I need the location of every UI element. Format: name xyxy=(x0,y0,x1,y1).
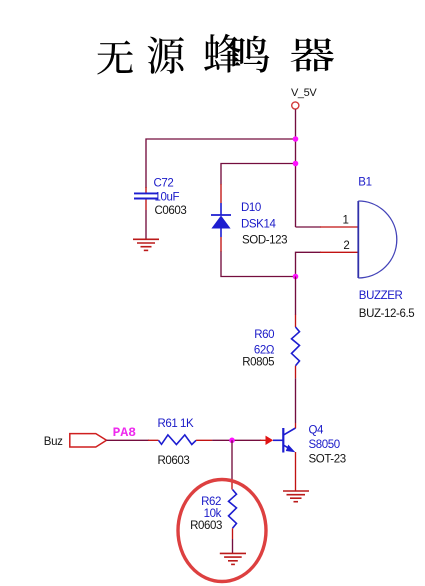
diode D10 cathode lead xyxy=(220,203,222,215)
capacitor C72 pin bottom xyxy=(145,200,147,211)
transistor Q4 emitter pin xyxy=(295,452,297,470)
buzzer B1 body flat side xyxy=(357,201,359,278)
wire R61 to junction xyxy=(212,439,232,441)
wire buzzer pin1 horizontal xyxy=(296,226,322,228)
node junction base/R62 xyxy=(229,438,235,444)
capacitor C72 pin top xyxy=(145,187,147,193)
resistor R60 pin bottom xyxy=(295,366,297,378)
wire junction to Q4 base xyxy=(232,439,261,441)
wire diode bottom branch xyxy=(221,252,296,277)
diode D10 triangle xyxy=(211,216,230,229)
resistor R60 zigzag xyxy=(292,327,300,366)
svg-text:C72: C72 xyxy=(154,178,174,190)
transistor Q4 emitter arrow head xyxy=(286,445,296,453)
svg-text:R0805: R0805 xyxy=(242,356,274,368)
power port V_5V circle xyxy=(292,102,299,109)
resistor R61 zigzag xyxy=(159,435,197,445)
svg-text:B1: B1 xyxy=(358,176,371,188)
resistor R62 zigzag xyxy=(229,490,237,529)
title char xyxy=(97,41,133,75)
svg-text:R0603: R0603 xyxy=(158,455,190,467)
svg-text:1: 1 xyxy=(343,214,349,226)
resistor R61 pin left xyxy=(148,439,159,441)
ground below C72 xyxy=(133,239,159,250)
wire junction to R60 xyxy=(295,277,297,316)
wire junction down to R62 xyxy=(231,440,233,480)
buzzer B1 pin 2 xyxy=(320,251,358,253)
wire buzzer pin2 horizontal and down xyxy=(296,252,322,277)
transistor Q4 collector pin xyxy=(295,423,297,428)
capacitor C72 plates xyxy=(134,192,158,194)
svg-text:R61: R61 xyxy=(158,418,178,430)
transistor Q4 collector diagonal xyxy=(284,428,296,435)
svg-text:S8050: S8050 xyxy=(309,439,340,451)
wire port to R61 xyxy=(107,439,150,441)
svg-text:Buz: Buz xyxy=(44,436,63,448)
title char xyxy=(291,38,334,72)
resistor R60 pin top xyxy=(295,315,297,327)
port Buz symbol xyxy=(70,434,107,447)
svg-text:10k: 10k xyxy=(204,508,222,520)
svg-text:PA8: PA8 xyxy=(113,425,137,440)
svg-text:SOT-23: SOT-23 xyxy=(309,454,346,466)
svg-text:62Ω: 62Ω xyxy=(254,345,275,357)
diode D10 pin top xyxy=(220,184,222,203)
ground below Q4 xyxy=(283,491,309,502)
wire C72 to ground xyxy=(145,210,147,239)
svg-text:BUZ-12-6.5: BUZ-12-6.5 xyxy=(359,308,414,320)
diode D10 anode lead xyxy=(220,229,222,238)
buzzer B1 body arc xyxy=(358,201,397,278)
title char xyxy=(148,37,184,74)
title char xyxy=(232,36,269,73)
svg-text:R60: R60 xyxy=(254,329,274,341)
svg-text:SOD-123: SOD-123 xyxy=(242,234,287,246)
svg-text:R0603: R0603 xyxy=(190,520,222,532)
node junction at C72 branch xyxy=(293,136,299,142)
wire emitter to ground xyxy=(295,470,297,491)
transistor Q4 base bar xyxy=(282,428,284,453)
diode D10 pin bottom xyxy=(220,237,222,252)
red arrow head xyxy=(266,436,274,445)
annotation red ellipse xyxy=(178,480,266,582)
svg-text:DSK14: DSK14 xyxy=(241,218,276,230)
resistor R61 pin right xyxy=(196,439,212,441)
svg-text:D10: D10 xyxy=(241,202,261,214)
resistor R62 pin bottom xyxy=(232,528,234,539)
wire diode top branch xyxy=(221,164,296,185)
wire top rail to C72 xyxy=(146,139,296,188)
svg-text:C0603: C0603 xyxy=(155,205,187,217)
svg-text:2: 2 xyxy=(343,240,349,252)
transistor Q4 base lead xyxy=(273,439,283,441)
svg-text:1K: 1K xyxy=(180,418,194,430)
wire V_5V stem down to buzzer pin1 corner xyxy=(295,109,297,227)
title char xyxy=(204,34,241,73)
ground below R62 xyxy=(220,553,246,564)
wire R62 to ground xyxy=(232,539,234,553)
transistor Q4 emitter diagonal xyxy=(284,445,292,450)
node junction diode bottom xyxy=(293,274,299,280)
wire arrow into base xyxy=(260,439,266,441)
svg-text:V_5V: V_5V xyxy=(291,87,317,99)
diode D10 cathode bar xyxy=(211,214,231,216)
svg-text:R62: R62 xyxy=(201,496,221,508)
svg-text:Q4: Q4 xyxy=(309,424,325,436)
buzzer B1 pin 1 xyxy=(320,226,358,228)
node junction at diode top branch xyxy=(293,161,299,167)
svg-text:10uF: 10uF xyxy=(155,191,180,203)
svg-text:BUZZER: BUZZER xyxy=(359,290,403,302)
wire R60 to Q4 collector xyxy=(295,378,297,423)
resistor R62 pin top xyxy=(231,479,233,490)
